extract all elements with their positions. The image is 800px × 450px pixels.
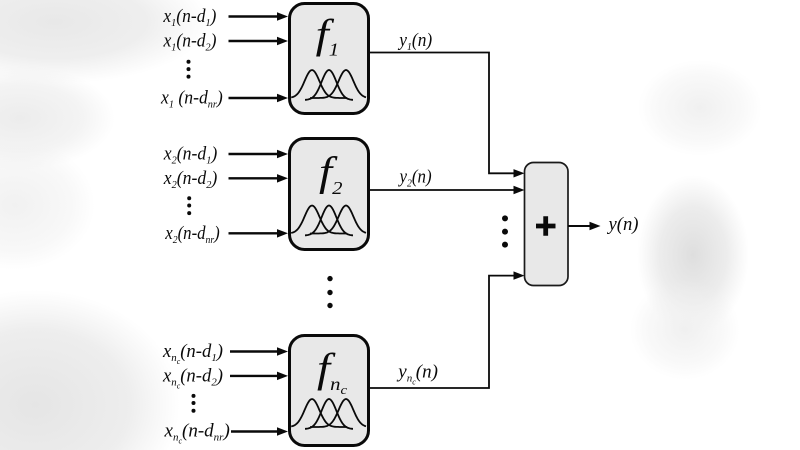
- background blur wash right lower: [630, 280, 740, 380]
- wire: y2(n) from f2 to adder: [370, 189, 514, 191]
- label: xnc(n-dnr): [164, 421, 230, 446]
- wire: input arrow xnc(n-d1): [230, 350, 279, 352]
- fnc membership curve right: [310, 399, 366, 427]
- wire: input arrow x2(n-d1): [229, 153, 280, 155]
- wire: input arrow x1(n-d2): [229, 40, 280, 42]
- svg-text:y(n): y(n): [607, 214, 639, 235]
- wire: input arrow x1(n-d1): [229, 15, 280, 17]
- label: xnc(n-d1): [162, 341, 223, 366]
- label: y2(n): [398, 166, 432, 190]
- wire: input arrow x2(n-d2): [229, 177, 280, 179]
- wire: input arrow x1(n-dnr): [229, 97, 280, 99]
- ellipsis dots input group 1: [187, 60, 191, 64]
- f1 membership curve left: [291, 70, 347, 98]
- label: y(n): [607, 214, 639, 235]
- plus sign: [536, 216, 556, 236]
- label f2: [319, 149, 343, 199]
- background blur wash right middle: [637, 175, 749, 335]
- label: x2(n-d2): [163, 167, 217, 191]
- f1 membership curve right: [310, 70, 366, 98]
- label: x2(n-dnr): [164, 222, 219, 246]
- f1 membership curve middle: [305, 70, 353, 100]
- ellipsis dots input group 3: [192, 394, 196, 398]
- wire: input arrow xnc(n-dnr): [231, 430, 279, 432]
- label: x1(n-d1): [162, 5, 216, 29]
- svg-text:y2(n): y2(n): [398, 166, 432, 190]
- f2 membership curve middle: [305, 206, 353, 236]
- fnc membership curve left: [291, 399, 347, 427]
- wire: input arrow x2(n-dnr): [229, 232, 280, 234]
- background blur wash left bottom: [0, 290, 180, 450]
- label: y1(n): [397, 29, 432, 53]
- background blur wash right top: [638, 60, 762, 156]
- background blur wash left upper-mid: [0, 66, 115, 170]
- wire: input arrow xnc(n-d2): [230, 375, 279, 377]
- label f_nc: [317, 345, 348, 397]
- ellipsis dots between f2 and f_nc: [327, 276, 332, 281]
- label: x2(n-d1): [163, 143, 217, 167]
- fnc membership curve middle: [305, 399, 353, 429]
- ellipsis dots left of adder: [502, 215, 508, 221]
- svg-text:y1(n): y1(n): [397, 29, 432, 53]
- label: ync(n): [396, 361, 438, 386]
- block U1: fuzzy subsystem f1: [290, 4, 369, 114]
- label: x1(n-d2): [163, 30, 217, 54]
- label f1: [316, 11, 339, 60]
- label: x1(n-dnr): [160, 87, 223, 111]
- wire: output y(n): [568, 225, 591, 227]
- summation block: adder +: [525, 163, 569, 286]
- ellipsis dots input group 2: [187, 196, 191, 200]
- f2 membership curve left: [291, 206, 347, 234]
- block U3: fuzzy subsystem f_nc: [290, 336, 369, 446]
- wire: y_nc(n) from f_nc to adder: [370, 276, 514, 388]
- wire: y1(n) from f1 to adder: [370, 53, 514, 174]
- block U2: fuzzy subsystem f2: [290, 139, 369, 250]
- label: xnc(n-d2): [162, 365, 223, 390]
- f2 membership curve right: [310, 206, 366, 234]
- background blur wash left top: [0, 0, 210, 84]
- background blur wash left middle: [0, 140, 95, 270]
